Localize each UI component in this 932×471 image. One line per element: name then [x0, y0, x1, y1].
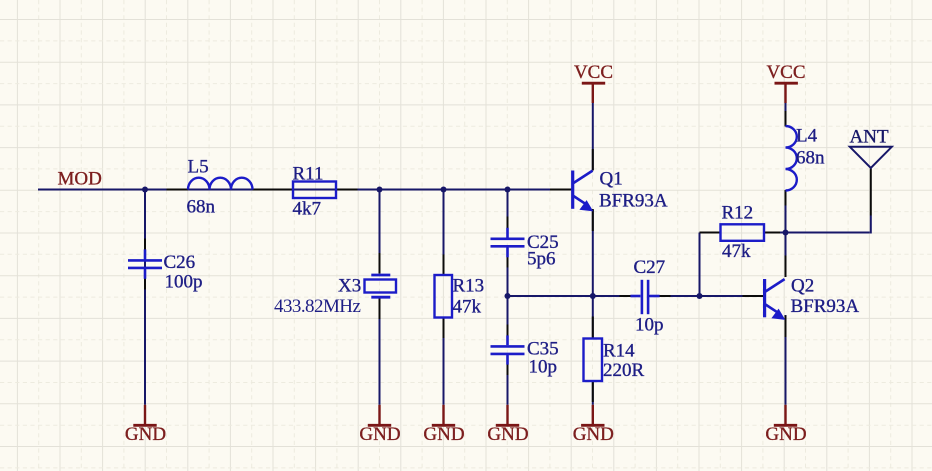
ground GND at x=592.8 — [581, 405, 604, 426]
junction at (145,189.5) — [142, 187, 148, 193]
svg-text:VCC: VCC — [574, 62, 613, 83]
resistor R13 — [435, 275, 453, 318]
crystal X3 — [365, 275, 397, 297]
pin: R11 pin 2 — [336, 189, 358, 191]
pin: R11 pin 1 — [272, 189, 293, 191]
svg-text:68n: 68n — [187, 197, 216, 218]
junction at (507.5,189.5) — [505, 187, 511, 193]
svg-text:GND: GND — [359, 424, 400, 445]
svg-text:100p: 100p — [165, 272, 203, 293]
wire: node A down to Q2 collector — [785, 233, 787, 277]
wire: R12 right to L4/ANT node — [764, 232, 786, 234]
transistor Q1 — [573, 171, 594, 212]
wire: Q1 collector to VCC — [592, 103, 594, 170]
svg-text:10p: 10p — [635, 315, 664, 336]
svg-text:R13: R13 — [453, 276, 485, 297]
capacitor C26 — [128, 249, 162, 278]
svg-text:Q2: Q2 — [791, 276, 814, 297]
svg-text:GND: GND — [573, 424, 614, 445]
svg-text:433.82MHz: 433.82MHz — [274, 296, 360, 317]
inductor L5 — [188, 178, 253, 190]
junction at (785.5,232.5) — [783, 230, 789, 236]
pin: Q1 base pin — [550, 189, 571, 191]
wire: VCC2 to L4 top — [785, 103, 787, 126]
pin: Q2 base pin — [743, 295, 764, 297]
svg-text:C27: C27 — [634, 257, 666, 278]
svg-text:Q1: Q1 — [600, 169, 623, 190]
junction at (699.5,296.0) — [697, 293, 703, 299]
junction at (443.5,189.5) — [441, 187, 447, 193]
svg-text:R11: R11 — [293, 164, 324, 185]
wire: C27 to Q2 base — [649, 295, 764, 297]
wire: X3 branch vertical — [379, 190, 381, 274]
svg-text:R14: R14 — [603, 341, 635, 362]
svg-text:GND: GND — [125, 424, 166, 445]
ground GND at x=379.5 — [368, 405, 391, 426]
svg-text:MOD: MOD — [58, 169, 102, 190]
pin: X3 pin 2 — [379, 299, 381, 320]
pin: C26 pin 2 — [144, 279, 146, 290]
wire: ANT vertical — [870, 216, 872, 234]
pin: Q2 emitter pin — [785, 316, 787, 338]
ground GND at x=785.5 — [774, 405, 797, 426]
power port VCC (Q1) — [582, 83, 605, 103]
pin: ANT pin — [870, 169, 872, 216]
wire: R12 left leg down to C27 node — [699, 233, 701, 297]
pin: R12 pin 2 — [764, 232, 780, 234]
pin: Q1 emitter pin — [592, 209, 594, 231]
svg-text:68n: 68n — [796, 148, 825, 169]
svg-text:BFR93A: BFR93A — [599, 191, 668, 212]
pin: C27 pin 1 — [620, 295, 631, 297]
junction at (507.5,296.0) — [505, 293, 511, 299]
ground GND at x=145 — [133, 405, 156, 426]
pin: X3 pin 1 — [379, 253, 381, 274]
pin: R12 pin 1 — [700, 232, 721, 234]
ground GND at x=443.5 — [432, 405, 455, 426]
pin: C25 pin 2 — [507, 257, 509, 268]
resistor R12 — [721, 224, 765, 241]
svg-text:5p6: 5p6 — [527, 249, 556, 270]
svg-text:GND: GND — [487, 424, 528, 445]
svg-text:GND: GND — [765, 424, 806, 445]
capacitor C25 — [491, 228, 525, 257]
wire: L4 bottom to node A — [785, 191, 787, 233]
pin: L4 pin 2 — [785, 190, 787, 206]
pin: C27 pin 2 — [659, 295, 670, 297]
pin: Q1 collector pin — [592, 149, 594, 171]
antenna ANT — [850, 147, 892, 168]
svg-text:ANT: ANT — [850, 127, 889, 148]
wire: middle rail emitter node to C27 — [508, 295, 641, 297]
pin: C26 pin 1 — [144, 239, 146, 250]
svg-text:47k: 47k — [722, 241, 751, 262]
svg-text:10p: 10p — [529, 357, 558, 378]
pin: L5 pin 1 — [167, 189, 189, 191]
junction at (592.8,296.0) — [590, 293, 596, 299]
pin: C35 pin 1 — [507, 325, 509, 336]
svg-text:4k7: 4k7 — [293, 199, 322, 220]
wire: C26 branch vertical — [144, 190, 146, 405]
svg-text:L5: L5 — [188, 157, 209, 178]
junction at (379.5,189.5) — [377, 187, 383, 193]
svg-text:GND: GND — [423, 424, 464, 445]
svg-text:X3: X3 — [338, 276, 361, 297]
inductor L4 — [786, 126, 797, 191]
svg-text:47k: 47k — [453, 297, 482, 318]
pin: Q2 collector pin — [785, 256, 787, 278]
svg-text:BFR93A: BFR93A — [791, 296, 860, 317]
svg-text:VCC: VCC — [766, 62, 805, 83]
wire: R13 branch vertical — [443, 190, 445, 277]
pin: C35 pin 2 — [507, 364, 509, 375]
ground GND at x=507.5 — [496, 405, 519, 426]
capacitor C35 — [491, 335, 525, 364]
pin: R14 pin 2 — [592, 381, 594, 403]
resistor R11 — [293, 182, 336, 199]
capacitor C27 — [630, 280, 659, 314]
svg-text:C26: C26 — [164, 252, 196, 273]
power port VCC (L4) — [775, 83, 798, 103]
wire: Q1 emitter / R14 node vertical — [592, 210, 594, 296]
pin: C25 pin 1 — [507, 217, 509, 229]
pin: L4 pin 1 — [785, 111, 787, 127]
wire: C25/C35 branch vertical — [507, 190, 509, 238]
svg-text:R12: R12 — [722, 203, 754, 224]
pin: L5 pin 2 — [253, 189, 275, 191]
wire: MOD net, main horizontal rail — [38, 189, 572, 191]
pin: R13 pin 2 — [443, 317, 445, 339]
transistor Q2 — [765, 279, 786, 320]
pin: R13 pin 1 — [443, 255, 445, 277]
svg-text:L4: L4 — [796, 126, 818, 147]
svg-text:220R: 220R — [603, 360, 645, 381]
resistor R14 — [584, 339, 603, 382]
wire: Q2 emitter down to GND — [785, 315, 787, 405]
wire: ANT horizontal to node A — [786, 232, 870, 234]
pin: R14 pin 1 — [592, 317, 594, 339]
